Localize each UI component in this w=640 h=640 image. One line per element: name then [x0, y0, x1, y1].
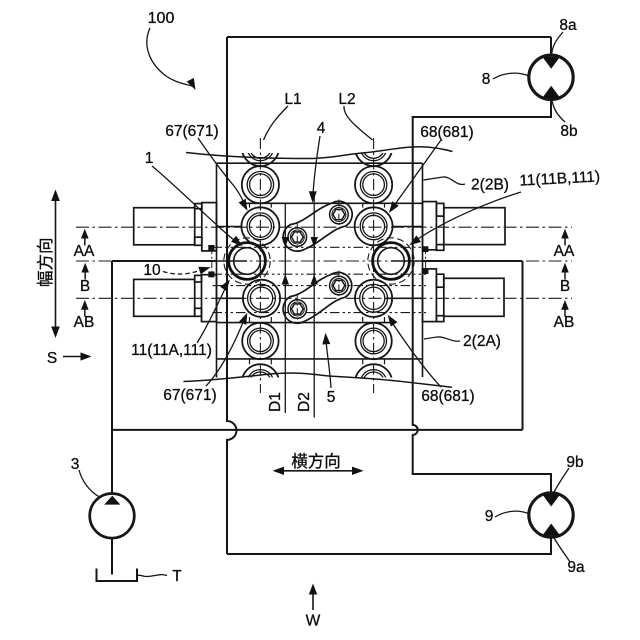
big circle 11A left — [229, 243, 266, 280]
dimension line D1 — [284, 204, 286, 413]
port lower-left strip — [202, 275, 217, 322]
svg-text:4: 4 — [317, 120, 326, 137]
circle row A left (cut by break) — [242, 129, 279, 166]
wire motor 8 bottom to block (x=413 through block) — [413, 99, 551, 164]
port upper-right strip — [423, 202, 437, 250]
chain line B row — [76, 260, 572, 262]
leader 68 top — [392, 140, 441, 209]
wire pump supply to block left (B row) — [112, 260, 217, 262]
spool bore end dashed verticals — [211, 247, 213, 274]
svg-text:B: B — [80, 278, 90, 295]
port lower-left big rect — [134, 279, 195, 316]
wire top line from left riser to motor 8 — [227, 36, 551, 38]
circle row E left — [243, 280, 280, 317]
port upper-left connector boxes — [195, 204, 202, 209]
svg-text:8a: 8a — [559, 17, 577, 34]
AB left arrow — [81, 300, 89, 317]
hex bolt lower-left — [288, 300, 307, 319]
dimension line D2 — [313, 196, 315, 418]
wavy break top — [186, 147, 453, 159]
svg-text:67(671): 67(671) — [163, 387, 216, 404]
D1 upper arrow — [282, 237, 289, 247]
D2 lower arrow — [311, 274, 318, 284]
D1 lower arrow — [282, 274, 289, 284]
arrow 67 bottom — [239, 311, 251, 325]
port lower-left connector boxes — [195, 275, 202, 282]
arrow 11(11B,111) — [407, 235, 421, 248]
wire motor 8 top stub — [550, 37, 552, 55]
wire bottom line to motor 9 — [227, 537, 551, 554]
hex bolt centerlines — [212, 200, 426, 325]
svg-text:8: 8 — [482, 71, 491, 88]
port upper-left big rect — [134, 208, 195, 245]
hex bolt lower-right — [330, 276, 349, 295]
svg-text:67(671): 67(671) — [165, 123, 218, 140]
leader 100 — [147, 28, 192, 86]
leader 5 — [326, 339, 331, 389]
svg-text:W: W — [306, 613, 321, 630]
leader 11(11A,111) — [197, 285, 227, 344]
B right arrow — [561, 263, 569, 280]
spool end caps upper left — [208, 245, 214, 251]
leader 9 — [495, 511, 530, 517]
block left edge — [216, 163, 218, 377]
AA left arrow — [81, 229, 89, 246]
dashed ring around 11B — [368, 238, 414, 284]
leader 9a — [554, 537, 571, 562]
hex bolt upper-left — [288, 228, 307, 247]
wire right supply into block (B row) — [423, 260, 523, 262]
passage B right into big circle — [391, 260, 423, 262]
passage AA right — [392, 226, 422, 228]
arrow 1 — [231, 236, 245, 250]
leader 3 — [79, 470, 100, 497]
port upper-left strip — [202, 203, 217, 251]
svg-text:2(2A): 2(2A) — [463, 333, 501, 350]
svg-text:100: 100 — [148, 10, 175, 27]
passage AA left — [217, 226, 243, 228]
leader 8a — [552, 32, 564, 56]
motor 9 — [529, 493, 573, 537]
big circle 11B right — [373, 243, 410, 280]
W arrow — [309, 584, 317, 611]
svg-text:68(681): 68(681) — [420, 124, 473, 141]
circle row C left — [241, 207, 279, 245]
svg-text:D1: D1 — [267, 392, 284, 412]
leader T — [138, 575, 167, 577]
AA right arrow — [561, 229, 569, 246]
arrow 11(11A,111) — [220, 277, 233, 291]
circle row F right — [355, 323, 391, 359]
block top edge — [217, 162, 423, 164]
blob 4 upper — [278, 196, 358, 257]
svg-text:T: T — [172, 568, 182, 585]
port lower-right connector boxes — [436, 274, 443, 287]
D2 upper arrow — [311, 237, 318, 247]
leader L2 — [344, 106, 373, 140]
bore 11A lower band — [213, 285, 427, 287]
port upper-right connector boxes — [436, 203, 443, 216]
leader 8 — [493, 73, 530, 79]
arrow 100 — [187, 78, 199, 92]
dashed ring around 11A — [224, 238, 270, 284]
svg-text:5: 5 — [327, 389, 336, 406]
wire below block with hop, to motor 9 top — [413, 377, 551, 493]
arrow 68 bottom — [384, 313, 397, 327]
leader 10 (dashed) — [163, 268, 205, 274]
svg-text:AA: AA — [554, 243, 575, 260]
arrow 67 top — [239, 199, 251, 213]
circle row E right — [355, 280, 392, 317]
port lower-right big rect — [444, 278, 504, 316]
svg-text:9a: 9a — [567, 559, 585, 576]
passage AB left — [217, 297, 244, 299]
passage AB right — [386, 297, 422, 299]
svg-text:10: 10 — [143, 262, 161, 279]
port lower-right strip — [423, 269, 437, 322]
svg-text:D2: D2 — [296, 392, 313, 412]
wire pump riser — [111, 261, 113, 494]
svg-text:L1: L1 — [284, 91, 301, 108]
circle row C right — [355, 207, 393, 245]
circle row B right — [355, 166, 392, 203]
leader 11(11B,111) — [413, 192, 521, 242]
svg-text:幅方向: 幅方向 — [36, 238, 55, 288]
lateral-direction double arrow — [273, 467, 364, 475]
pump 3 — [90, 494, 135, 539]
svg-text:AB: AB — [554, 314, 575, 331]
circle row A right (cut by break) — [355, 129, 392, 166]
B left arrow — [81, 263, 89, 280]
AB right arrow — [561, 300, 569, 317]
blob 5 lower — [278, 267, 357, 329]
leader 1 — [152, 166, 239, 244]
arrow 5 — [322, 333, 331, 345]
svg-text:S: S — [47, 350, 57, 367]
circle row B left — [242, 166, 279, 203]
svg-text:8b: 8b — [560, 123, 577, 140]
svg-text:AA: AA — [74, 243, 95, 260]
block bottom edge — [217, 358, 423, 360]
leader 4 — [313, 136, 320, 198]
wavy break bottom — [184, 373, 453, 387]
leader L1 — [264, 106, 289, 140]
svg-text:9b: 9b — [566, 454, 583, 471]
wire through block vertical right — [412, 163, 414, 377]
width-direction double arrow — [51, 190, 60, 339]
chain line AB — [76, 297, 572, 299]
bore 11B upper band — [213, 246, 427, 248]
leader 68 bottom — [390, 320, 441, 388]
svg-text:9: 9 — [485, 508, 494, 525]
svg-text:L2: L2 — [338, 91, 355, 108]
block right edge — [422, 163, 424, 377]
svg-text:B: B — [560, 278, 570, 295]
svg-text:1: 1 — [145, 150, 154, 167]
wire pump branch horizontal — [112, 429, 523, 431]
S arrow — [63, 352, 92, 360]
port upper-right big rect — [444, 208, 505, 245]
leader 9b — [553, 468, 569, 494]
svg-text:11(11A,111): 11(11A,111) — [131, 342, 212, 359]
passage B left into big circle — [217, 260, 248, 262]
svg-text:3: 3 — [71, 456, 80, 473]
leader 2(2B) — [424, 177, 466, 185]
hex bolt upper-right — [330, 205, 349, 224]
arrow 10 — [198, 263, 211, 274]
circle row F left — [242, 323, 278, 359]
chain line AA — [76, 226, 572, 228]
arrow 4 — [309, 191, 317, 203]
wire pump to tank — [111, 538, 113, 575]
chain line right column centerline — [373, 138, 375, 393]
leader 67 bottom — [206, 318, 245, 386]
wire left riser with hop over pump branch — [227, 37, 236, 554]
svg-text:68(681): 68(681) — [421, 388, 474, 405]
arrow 68 top — [386, 201, 399, 215]
wire right supply riser — [522, 261, 524, 430]
leader 8b — [552, 98, 566, 122]
circle row G left (cut by break) — [242, 364, 279, 401]
circle row G right (cut by break) — [355, 364, 392, 401]
svg-text:2(2B): 2(2B) — [471, 177, 509, 194]
svg-text:AB: AB — [74, 314, 95, 331]
svg-text:横方向: 横方向 — [291, 452, 341, 471]
motor 8 — [529, 55, 573, 99]
leader 2(2A) — [424, 337, 460, 341]
block internal line lower left — [217, 322, 393, 324]
spool end caps upper right — [422, 246, 428, 252]
block internal line upper right — [242, 202, 423, 204]
chain line left column centerline — [259, 138, 261, 393]
tank T — [97, 569, 138, 582]
leader 67 top — [198, 138, 246, 207]
